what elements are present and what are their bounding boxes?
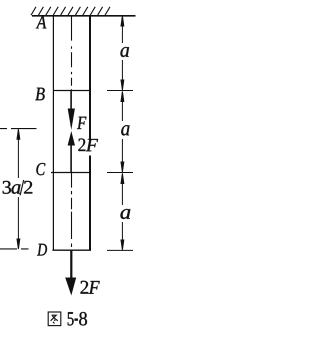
right dimension segment a (middle) (121, 92, 124, 173)
node B label (35, 88, 44, 101)
crossbar at C (51, 172, 90, 174)
label 3a/2 (3, 180, 33, 195)
force 2F arrow (up, applied at C) (68, 131, 75, 172)
right dimension segment a (top) (121, 16, 124, 90)
bar right wall (89, 15, 91, 251)
node A label (36, 16, 47, 28)
right dimension segment a (bottom) (121, 174, 124, 251)
label a (middle) (121, 125, 129, 135)
fixed support hatching (31, 7, 110, 15)
node D label (37, 244, 47, 256)
label a (top) (121, 47, 130, 57)
label a (bottom) (121, 209, 131, 219)
centerline C-D (dash-dot) (71, 173, 73, 250)
force 2F label (mid) (78, 139, 98, 156)
left dimension extension bottom (dash-dot) (0, 248, 29, 250)
node C label (36, 163, 45, 175)
force F arrow (down, applied at B) (68, 91, 75, 130)
right dimension: extension ticks (107, 91, 133, 251)
ceiling line (32, 15, 136, 17)
bar bottom line (52, 249, 91, 251)
force 2F arrow at D (down) (65, 250, 76, 296)
crossbar at B (53, 90, 90, 92)
force F label (77, 117, 86, 129)
caption: 图 glyph (drawn) (48, 312, 61, 326)
force 2F label (bottom) (81, 281, 100, 294)
left dimension line 3a/2 (17, 129, 20, 249)
left dimension extension top (dash-dot) (0, 128, 37, 130)
caption: 5-8 (68, 312, 87, 326)
bar left wall (52, 15, 54, 251)
centerline A-B (dash-dot) (71, 16, 73, 90)
